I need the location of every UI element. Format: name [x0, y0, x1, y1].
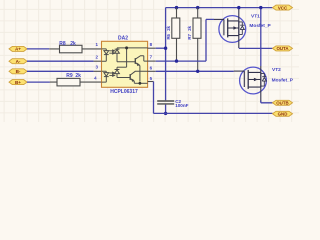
- transistor Q2: [117, 71, 148, 83]
- port B+: [9, 80, 27, 85]
- light arrows channel 2: [109, 72, 114, 76]
- capacitor C2 100nF: [157, 99, 188, 113]
- pin 3 stub: [94, 70, 102, 72]
- photodiode channel 1: [115, 48, 120, 62]
- resistor R8 2k: [49, 41, 101, 53]
- svg-text:100nF: 100nF: [175, 103, 188, 108]
- svg-text:OUTA: OUTA: [276, 46, 289, 51]
- wire VT1 drain to OUTA: [239, 47, 273, 49]
- emitter bus to pin 5: [134, 82, 147, 84]
- resistor R7 2k: [187, 6, 201, 71]
- LED channel 1: [102, 49, 109, 61]
- svg-text:R7: R7: [187, 33, 192, 39]
- VCC top line inside DA2 to pin 8: [117, 47, 148, 49]
- GND rail: [154, 112, 273, 114]
- svg-text:R9: R9: [66, 73, 73, 79]
- wire pin 6 net to VT2 gate: [156, 70, 234, 72]
- junction pin8/VCC: [164, 47, 167, 50]
- wire B- to pin 3: [27, 70, 94, 72]
- port A-: [9, 59, 27, 64]
- wire VT2 drain to OUTB: [261, 101, 273, 103]
- wire pin 5 to GND rail: [153, 82, 155, 114]
- svg-text:VT1: VT1: [251, 14, 260, 20]
- port GND: [273, 111, 293, 116]
- svg-text:2k: 2k: [75, 73, 81, 79]
- junction R6 / pin7: [175, 59, 178, 62]
- wire B+ to R9: [27, 81, 50, 83]
- internal junction: [125, 46, 128, 49]
- op-amp U1 : optocoupler DA2 body: [102, 36, 148, 95]
- wire A- to pin 2: [27, 60, 94, 62]
- VCC vertical wire: [165, 8, 167, 101]
- svg-text:VT2: VT2: [272, 67, 281, 73]
- svg-text:VCC: VCC: [278, 5, 288, 10]
- resistor R9 2k: [50, 73, 102, 86]
- svg-text:Mosfet_P: Mosfet_P: [272, 78, 294, 84]
- pin 2 stub: [94, 60, 102, 62]
- svg-text:HCPL06317: HCPL06317: [110, 89, 138, 95]
- svg-text:DA2: DA2: [118, 36, 128, 42]
- wire VCC rail to VT2 source: [260, 8, 262, 66]
- port OUTA: [273, 46, 293, 51]
- svg-text:B-: B-: [16, 69, 21, 74]
- junction VT2 source / VCC rail: [259, 6, 262, 9]
- pin 8 stub: [148, 47, 156, 49]
- port VCC: [273, 5, 293, 10]
- internal VCC drop: [126, 48, 128, 67]
- svg-text:R6: R6: [166, 33, 171, 39]
- pin 7 stub: [148, 60, 156, 62]
- light arrows channel 1: [109, 50, 114, 54]
- port OUTB: [273, 100, 293, 105]
- resistor R6 2k: [166, 6, 180, 61]
- LED channel 2: [102, 71, 109, 82]
- junction R7 / pin6: [196, 70, 199, 73]
- transistor VT1 Mosfet_P: [214, 8, 272, 48]
- pin 6 stub: [148, 70, 156, 72]
- transistor Q1: [117, 56, 148, 82]
- photodiode channel 2: [115, 67, 127, 77]
- svg-text:B+: B+: [15, 80, 21, 85]
- port A+: [9, 46, 27, 51]
- pin 5 stub: [148, 81, 154, 83]
- svg-text:GND: GND: [278, 112, 288, 117]
- port B-: [9, 69, 27, 74]
- svg-text:A+: A+: [15, 47, 21, 52]
- junction C2 / GND rail: [164, 112, 167, 115]
- svg-text:2k: 2k: [166, 25, 171, 30]
- VCC rail: [166, 7, 273, 9]
- svg-text:OUTB: OUTB: [276, 101, 288, 106]
- transistor VT2 Mosfet_P: [234, 66, 294, 102]
- wire pin 8 to VCC: [156, 47, 166, 49]
- wire pin 7 net to VT1 gate: [156, 19, 214, 61]
- wire A+ to R8: [27, 48, 49, 50]
- svg-text:R8: R8: [59, 41, 66, 47]
- svg-text:2k: 2k: [187, 25, 192, 30]
- svg-text:2k: 2k: [70, 41, 76, 47]
- svg-text:A-: A-: [16, 59, 21, 64]
- emitter junction: [139, 82, 142, 85]
- junction VT1 source / VCC rail: [237, 6, 240, 9]
